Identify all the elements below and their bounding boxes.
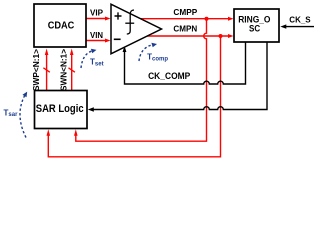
wire VIN: [86, 39, 111, 43]
block RING_OSC: [234, 9, 279, 42]
latch clock symbol: [127, 10, 134, 34]
svg-text:VIN: VIN: [90, 31, 103, 40]
block CDAC: [34, 4, 86, 47]
svg-text:CMPP: CMPP: [173, 7, 197, 17]
minus input mark: [114, 38, 121, 40]
wire ring osc to SAR Logic clock (hops over red wires): [88, 42, 267, 112]
annotation Tsar arc: [20, 92, 27, 138]
svg-text:SWP<N:1>: SWP<N:1>: [31, 49, 41, 91]
svg-text:CMPN: CMPN: [173, 24, 197, 34]
op-amp comparator U1: [111, 4, 162, 54]
wire CK_COMP (ring osc to comparator clock, hops over red wires): [123, 42, 246, 84]
block SAR Logic: [35, 91, 88, 129]
junction dot on CMPP: [205, 17, 209, 21]
wire SWN bus (SAR Logic to CDAC): [69, 49, 75, 91]
wire SWP bus (SAR Logic to CDAC): [43, 49, 49, 91]
wire CMPN: [146, 34, 234, 38]
annotation Tset arc: [81, 49, 97, 68]
wire CMPN feedback to SAR Logic: [47, 36, 221, 157]
svg-text:CDAC: CDAC: [48, 21, 75, 32]
svg-text:SWN<N:1>: SWN<N:1>: [59, 49, 69, 91]
wire CMPP feedback to SAR Logic (with hop over CMPN): [74, 19, 207, 142]
svg-text:CK_S: CK_S: [289, 15, 311, 24]
svg-text:SC: SC: [249, 24, 260, 34]
wire CK_S: [280, 24, 314, 28]
plus input mark: [115, 12, 122, 19]
svg-text:SAR Logic: SAR Logic: [36, 103, 84, 115]
wire CMPP: [140, 17, 234, 21]
svg-text:VIP: VIP: [90, 9, 103, 18]
wire VIP: [86, 17, 111, 21]
junction dot on CMPN: [219, 34, 223, 38]
annotation Tcomp arc: [139, 43, 157, 61]
svg-text:CK_COMP: CK_COMP: [148, 71, 190, 81]
